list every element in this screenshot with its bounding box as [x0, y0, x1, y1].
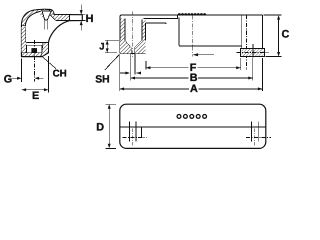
- svg-text:C: C: [282, 29, 290, 41]
- left section view outline: [22, 9, 83, 56]
- middle view right foot block: [241, 48, 265, 56]
- dimension B: [131, 77, 253, 79]
- front view parting line: [120, 126, 266, 128]
- left view boss hatch left: [22, 42, 27, 52]
- left view crown wall hatch band: [22, 9, 46, 26]
- dimension J: [105, 40, 119, 52]
- left view corner chamfer hatch: [42, 42, 49, 56]
- middle section view body: [120, 15, 263, 54]
- front view rounded case: [120, 104, 266, 148]
- left view boss ledge lines: [25, 42, 48, 45]
- middle view left wall inner face: [124, 18, 126, 40]
- middle view partition hatch: [142, 20, 146, 41]
- middle view left wall hatch: [120, 18, 124, 40]
- label SH with leader: [105, 54, 120, 70]
- dimension F: [146, 67, 241, 69]
- svg-text:SH: SH: [95, 75, 109, 86]
- middle view cover ribs: [178, 13, 206, 15]
- label CH with leader: [43, 57, 57, 69]
- dimension H arrows: [81, 5, 85, 31]
- dimension G: [12, 40, 43, 82]
- middle view screw centerline left: [132, 11, 134, 57]
- left view top strip hatch: [48, 10, 70, 21]
- svg-text:A: A: [190, 83, 198, 95]
- left view left wall inner line: [24, 27, 26, 42]
- left view left wall hatch: [22, 27, 26, 42]
- middle view right screw centerline: [245, 15, 247, 70]
- middle view partition faces: [142, 20, 146, 41]
- middle view slide arrow: [198, 54, 214, 56]
- left view inner arc: [25, 11, 42, 26]
- left view screw hole hidden lines: [45, 20, 48, 30]
- left view screw countersink V: [42, 11, 52, 20]
- dimension C: [264, 15, 282, 57]
- middle view cover left wall and bottom edge: [179, 18, 242, 47]
- middle view left boss with countersink: [125, 41, 142, 54]
- left view counterbore: [27, 45, 42, 53]
- svg-text:CH: CH: [53, 69, 67, 80]
- left view screw hole dark: [31, 48, 37, 53]
- extension lines below middle view: [120, 54, 263, 92]
- svg-text:J: J: [99, 41, 104, 52]
- svg-text:H: H: [86, 13, 94, 25]
- middle view right partition face: [241, 15, 243, 48]
- front view vent holes: [177, 115, 206, 119]
- svg-text:E: E: [32, 90, 39, 102]
- small slot dimension arrows: [120, 72, 141, 74]
- dimension E: [22, 56, 49, 93]
- front view left screw cross: [123, 121, 147, 146]
- front view right screw cross: [246, 121, 271, 146]
- middle view cover tongue lines: [144, 15, 178, 24]
- left view bottom band hatch: [22, 53, 42, 57]
- dimension A: [120, 88, 263, 90]
- dimension D: [105, 104, 116, 148]
- svg-text:D: D: [96, 121, 104, 133]
- left view crown hatch patch: [40, 9, 45, 19]
- svg-text:G: G: [4, 73, 12, 85]
- right block centerline: [237, 51, 269, 53]
- middle view mid centerline: [191, 16, 193, 57]
